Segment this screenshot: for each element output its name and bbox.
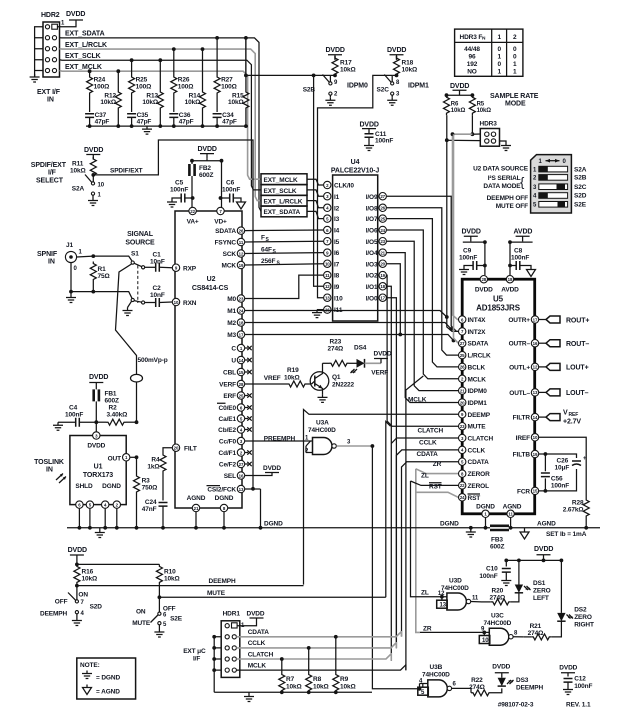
resistor R11 xyxy=(70,157,96,177)
svg-text:DS4: DS4 xyxy=(354,345,367,352)
svg-text:12: 12 xyxy=(239,251,244,256)
svg-text:M1: M1 xyxy=(227,308,236,315)
svg-text:VERF: VERF xyxy=(371,370,388,377)
resistor R16 xyxy=(74,564,97,584)
resistor R2 xyxy=(96,405,138,426)
svg-text:14: 14 xyxy=(239,358,244,363)
resistor R4 + capacitor C24 (FILT) xyxy=(142,448,172,530)
power DVDD (R17) xyxy=(326,47,345,60)
svg-text:I/F: I/F xyxy=(193,656,200,663)
EXT_MCLK label box xyxy=(261,174,323,185)
output tag LOUT- xyxy=(539,389,589,397)
svg-text:CSI2/FCK: CSI2/FCK xyxy=(207,487,236,494)
svg-text:CLATCH: CLATCH xyxy=(248,651,274,658)
EXT_L/RCLK label box xyxy=(261,195,323,208)
svg-text:26: 26 xyxy=(239,228,244,233)
output tag VREF +2.7V xyxy=(539,410,581,426)
svg-text:10kΩ: 10kΩ xyxy=(340,67,356,74)
svg-text:24: 24 xyxy=(460,495,465,500)
IC U1 TORX173 body xyxy=(70,422,139,537)
svg-text:S2D: S2D xyxy=(574,193,587,200)
switch S2D xyxy=(40,586,102,626)
RC column 3: R26/R14/C36 xyxy=(169,47,205,126)
svg-text:DEEMPH: DEEMPH xyxy=(516,685,544,692)
svg-text:ON: ON xyxy=(136,609,146,616)
svg-text:DGND: DGND xyxy=(102,483,121,490)
svg-text:AGND: AGND xyxy=(503,504,522,511)
no-connect marks U2 xyxy=(245,346,252,466)
svg-text:U3A: U3A xyxy=(316,420,329,427)
svg-text:FILTB: FILTB xyxy=(513,452,531,459)
resistor R9 xyxy=(333,635,356,693)
svg-text:I/O4: I/O4 xyxy=(366,250,378,257)
svg-text:I/O9: I/O9 xyxy=(366,194,378,201)
wire M2 xyxy=(245,323,453,331)
svg-text:DVDD: DVDD xyxy=(198,146,217,153)
svg-text:+2.7V: +2.7V xyxy=(563,419,581,426)
svg-text:REF: REF xyxy=(569,412,579,418)
power DVDD (R11) xyxy=(84,147,103,160)
svg-text:I6: I6 xyxy=(334,250,340,257)
svg-text:I/F: I/F xyxy=(48,170,57,177)
wire CCLK to pin xyxy=(396,440,458,649)
svg-text:274Ω: 274Ω xyxy=(469,684,485,691)
svg-text:10kΩ: 10kΩ xyxy=(477,108,492,114)
svg-text:CDATA: CDATA xyxy=(417,451,439,458)
svg-text:MCLK: MCLK xyxy=(248,662,267,669)
U5 left pin labels xyxy=(468,317,494,502)
svg-text:R7: R7 xyxy=(286,676,295,683)
svg-text:DVDD: DVDD xyxy=(89,374,108,381)
net CCLK xyxy=(236,640,396,648)
U5 right pin circles xyxy=(531,316,538,495)
svg-text:C10: C10 xyxy=(486,566,498,573)
svg-text:47pF: 47pF xyxy=(179,118,194,125)
wire AGND rail xyxy=(509,521,600,540)
svg-text:F: F xyxy=(261,235,265,242)
ground I11 xyxy=(312,310,323,318)
ground (HDR2 left bus) xyxy=(30,27,43,82)
U2 right-side pins xyxy=(207,228,236,493)
svg-text:FB1: FB1 xyxy=(105,391,117,398)
wire DGND rail xyxy=(67,521,490,538)
wire MUTE up to U5 xyxy=(386,422,391,598)
svg-text:I8: I8 xyxy=(334,273,340,280)
svg-text:EXT_SDATA: EXT_SDATA xyxy=(65,31,105,38)
svg-text:U5: U5 xyxy=(493,295,504,304)
svg-text:C5: C5 xyxy=(175,180,184,187)
svg-text:19: 19 xyxy=(239,263,244,268)
ferrite bead FB3 xyxy=(490,526,509,551)
switch S2A xyxy=(72,175,105,206)
svg-text:I10: I10 xyxy=(334,295,343,302)
svg-text:EXT I/F: EXT I/F xyxy=(37,89,61,96)
wire RST stub xyxy=(415,483,480,498)
svg-text:28: 28 xyxy=(481,277,486,282)
wire I/O9 to INT2X xyxy=(387,196,459,331)
wire HDR1 ground rail xyxy=(214,690,372,701)
label VERF xyxy=(371,370,388,377)
power DVDD (R18) xyxy=(387,47,406,60)
svg-text:IN: IN xyxy=(47,97,54,104)
svg-text:LOUT+: LOUT+ xyxy=(566,365,589,372)
svg-text:EXT μC: EXT μC xyxy=(183,648,206,655)
svg-text:ROUT–: ROUT– xyxy=(566,341,589,348)
svg-text:10: 10 xyxy=(174,300,179,305)
svg-text:EXT_SCLK: EXT_SCLK xyxy=(65,53,101,60)
capacitor C1 xyxy=(145,252,172,272)
capacitor C6 xyxy=(219,161,246,209)
svg-text:10nF: 10nF xyxy=(150,259,165,266)
power DVDD (R6/R5) xyxy=(445,83,475,97)
svg-text:DVDD: DVDD xyxy=(247,611,265,618)
svg-text:74HC00D: 74HC00D xyxy=(308,427,336,434)
svg-text:S2E: S2E xyxy=(170,616,183,623)
svg-text:DVDD: DVDD xyxy=(263,465,281,472)
power DVDD (C11) xyxy=(360,122,379,134)
wire FSYNC/Fs to I5 xyxy=(245,235,323,244)
svg-text:15: 15 xyxy=(533,489,538,494)
svg-text:27: 27 xyxy=(460,341,465,346)
svg-text:DS3: DS3 xyxy=(516,677,529,684)
svg-text:10kΩ: 10kΩ xyxy=(340,684,356,691)
wire CDATA to pin xyxy=(402,451,459,637)
net EXT_MCLK wire xyxy=(60,64,262,179)
svg-text:DVDD: DVDD xyxy=(492,664,510,671)
svg-text:100nF: 100nF xyxy=(459,255,477,262)
wire I/O6 to MCLK xyxy=(387,230,459,379)
svg-text:23: 23 xyxy=(380,239,385,244)
svg-text:OUTR–: OUTR– xyxy=(509,341,531,348)
svg-text:600Z: 600Z xyxy=(490,544,504,551)
label SIGNAL SOURCE xyxy=(125,231,155,247)
svg-text:ON: ON xyxy=(78,592,88,599)
svg-text:18: 18 xyxy=(508,277,513,282)
svg-text:18: 18 xyxy=(239,320,244,325)
svg-text:HDR2: HDR2 xyxy=(41,12,60,19)
U4 left pins xyxy=(324,181,355,314)
svg-text:SAMPLE RATE: SAMPLE RATE xyxy=(490,93,539,100)
svg-text:ERF: ERF xyxy=(223,393,236,400)
overlines CSI2 and C0 xyxy=(207,403,226,485)
svg-text:15: 15 xyxy=(239,370,244,375)
svg-text:DVDD: DVDD xyxy=(66,11,85,18)
svg-text:10kΩ: 10kΩ xyxy=(70,168,86,175)
svg-text:1: 1 xyxy=(513,69,517,76)
svg-text:17: 17 xyxy=(380,296,385,301)
svg-text:I9: I9 xyxy=(334,284,340,291)
nand gate U3D xyxy=(415,578,481,611)
svg-text:47nF: 47nF xyxy=(142,506,157,513)
svg-text:11: 11 xyxy=(239,240,244,245)
svg-text:CDATA: CDATA xyxy=(248,629,270,636)
svg-text:14: 14 xyxy=(533,415,538,420)
svg-text:100nF: 100nF xyxy=(574,683,592,690)
svg-text:21: 21 xyxy=(194,506,199,511)
capacitor C12 xyxy=(559,665,592,695)
svg-text:3.40kΩ: 3.40kΩ xyxy=(107,412,128,419)
svg-text:RXP: RXP xyxy=(183,266,197,273)
svg-text:2.67kΩ: 2.67kΩ xyxy=(563,507,584,514)
RC column 4: R27/R15/C34 xyxy=(213,36,249,126)
svg-text:CDATA: CDATA xyxy=(468,459,490,466)
label SAMPLE RATE MODE xyxy=(490,93,539,108)
svg-text:S2A: S2A xyxy=(72,186,85,193)
svg-text:SOURCE: SOURCE xyxy=(125,240,155,247)
svg-text:EXT_L/RCLK: EXT_L/RCLK xyxy=(264,199,303,206)
pin DGND 1 / AGND 11 xyxy=(476,504,522,530)
wire I/O2 to MUTE pin xyxy=(387,275,459,426)
svg-text:SPDIF/EXT: SPDIF/EXT xyxy=(31,162,67,169)
svg-text:47pF: 47pF xyxy=(95,118,110,125)
RC column 2: R25/R13/C35 xyxy=(127,58,163,126)
wire PREEMPH xyxy=(245,436,311,443)
svg-text:IN: IN xyxy=(48,259,55,266)
resistor R10 xyxy=(156,564,179,584)
svg-text:TORX173: TORX173 xyxy=(83,472,113,479)
svg-text:17: 17 xyxy=(239,332,244,337)
svg-text:100nF: 100nF xyxy=(375,138,393,145)
resistor R18 xyxy=(394,56,418,76)
svg-text:DVDD: DVDD xyxy=(87,443,105,450)
svg-text:10μF: 10μF xyxy=(555,465,570,472)
svg-text:HDR3: HDR3 xyxy=(480,121,498,128)
svg-text:FB3: FB3 xyxy=(491,537,503,544)
capacitor C56 loop FILTB/FCR xyxy=(539,452,577,493)
switch S2E xyxy=(132,597,183,637)
svg-text:R28: R28 xyxy=(572,500,584,507)
svg-text:SCK: SCK xyxy=(223,251,237,258)
wire I/O5 to IDPM0 pin xyxy=(387,241,459,390)
svg-text:FSYNC: FSYNC xyxy=(215,240,237,247)
wire I/O1 to CLATCH vertical xyxy=(387,286,392,660)
net DEEMPH vertical to DEEMP pin xyxy=(304,410,459,585)
wire CLATCH to pin xyxy=(391,428,458,444)
svg-text:SPNIF: SPNIF xyxy=(37,251,58,258)
resistor R6 xyxy=(444,95,466,115)
wire M3 xyxy=(245,335,455,343)
svg-text:#98107-02-3: #98107-02-3 xyxy=(498,702,534,709)
svg-text:96: 96 xyxy=(469,54,476,61)
capacitor C8 xyxy=(508,242,535,276)
svg-text:IREF: IREF xyxy=(516,435,530,442)
svg-text:CCLK: CCLK xyxy=(468,447,486,454)
svg-text:DEEMPH: DEEMPH xyxy=(209,578,237,585)
net EXT_L/RCLK wire xyxy=(60,42,262,201)
power DVDD (HDR1) xyxy=(237,611,265,626)
svg-text:C12: C12 xyxy=(574,676,586,683)
svg-text:NO: NO xyxy=(467,69,477,76)
svg-text:10kΩ: 10kΩ xyxy=(82,576,98,583)
wire J1 bottom rail xyxy=(66,263,132,303)
capacitor C10 xyxy=(479,559,511,586)
svg-text:IDPM1: IDPM1 xyxy=(468,400,488,407)
svg-text:750Ω: 750Ω xyxy=(142,485,158,492)
svg-text:AVDD: AVDD xyxy=(501,287,519,294)
svg-text:I/O0: I/O0 xyxy=(366,295,378,302)
svg-text:AGND: AGND xyxy=(537,521,556,528)
resistor R3 xyxy=(134,457,158,528)
svg-text:0: 0 xyxy=(497,61,501,68)
net SPDIF/EXT xyxy=(91,140,255,491)
svg-text:FILTR: FILTR xyxy=(513,415,531,422)
svg-text:AD1853JRS: AD1853JRS xyxy=(476,304,521,313)
svg-text:SDATA: SDATA xyxy=(215,228,236,235)
svg-text:1: 1 xyxy=(497,34,501,41)
svg-text:U3C: U3C xyxy=(491,613,504,620)
svg-text:= AGND: = AGND xyxy=(96,689,120,696)
power DVDD (FB2) xyxy=(190,146,223,163)
svg-text:AVDD: AVDD xyxy=(514,229,533,236)
wire IDPM0 to U4 I9 xyxy=(312,74,324,287)
svg-text:OUTL+: OUTL+ xyxy=(509,364,530,371)
wire VERF to R19 xyxy=(245,375,287,384)
ferrite bead FB1 xyxy=(94,388,119,423)
svg-text:19: 19 xyxy=(380,273,385,278)
svg-text:CBL: CBL xyxy=(223,370,236,377)
svg-text:R19: R19 xyxy=(287,367,299,374)
power DVDD (DS1/DS2 rail) xyxy=(506,546,563,562)
svg-text:C8: C8 xyxy=(514,248,523,255)
RC column 1: R24/R12/C37 xyxy=(85,69,121,126)
resistor R7 xyxy=(279,657,302,692)
pin RXN 10 xyxy=(172,298,196,307)
svg-text:ZL: ZL xyxy=(421,590,429,597)
svg-text:MUTE: MUTE xyxy=(468,424,487,431)
svg-text:74HC00D: 74HC00D xyxy=(484,620,512,627)
svg-text:R16: R16 xyxy=(82,569,94,576)
svg-text:1: 1 xyxy=(497,69,501,76)
connector HDR1 xyxy=(221,611,245,678)
power DVDD (FB1) xyxy=(89,374,108,388)
label EXT I/F IN xyxy=(37,89,61,104)
ferrite bead FB2 xyxy=(189,161,213,207)
resistor R8 xyxy=(306,646,329,693)
svg-text:R8: R8 xyxy=(313,676,322,683)
nand gate U3A xyxy=(305,420,374,455)
svg-text:I/O2: I/O2 xyxy=(366,273,378,280)
svg-text:C: C xyxy=(231,346,236,353)
svg-text:R11: R11 xyxy=(72,161,84,168)
capacitor C11 xyxy=(364,131,393,151)
svg-text:EXT_SCLK: EXT_SCLK xyxy=(264,188,297,195)
svg-text:DS2: DS2 xyxy=(574,607,587,614)
svg-text:I1: I1 xyxy=(334,194,340,201)
svg-text:Q1: Q1 xyxy=(332,374,341,381)
svg-text:IDPM0: IDPM0 xyxy=(347,83,368,90)
svg-text:I/O6: I/O6 xyxy=(366,228,378,235)
svg-text:I3: I3 xyxy=(334,216,340,223)
svg-text:I5: I5 xyxy=(334,239,340,246)
svg-text:U3B: U3B xyxy=(430,664,443,671)
svg-text:100Ω: 100Ω xyxy=(136,83,152,90)
svg-text:CCLK: CCLK xyxy=(248,640,266,647)
wire R6 to HDR3 and INT2X xyxy=(445,115,480,331)
svg-text:21: 21 xyxy=(380,250,385,255)
svg-text:13: 13 xyxy=(325,296,330,301)
svg-text:100Ω: 100Ω xyxy=(221,83,237,90)
switch S2C xyxy=(377,74,430,106)
svg-text:11: 11 xyxy=(508,512,513,517)
U5 right pin labels xyxy=(508,317,530,495)
svg-text:EXT_SDATA: EXT_SDATA xyxy=(264,209,301,216)
svg-text:SDATA: SDATA xyxy=(468,341,489,348)
resistor R21 xyxy=(523,623,551,640)
wire M1 xyxy=(245,311,449,319)
pin VA+ 22 xyxy=(187,207,199,225)
svg-text:13: 13 xyxy=(533,390,538,395)
EXT_SCLK label box xyxy=(261,185,323,197)
svg-text:MUTE: MUTE xyxy=(207,590,226,597)
svg-text:M3: M3 xyxy=(227,332,236,339)
wire EXT_SDATA to R17 junction xyxy=(244,38,330,77)
svg-text:0: 0 xyxy=(513,46,517,53)
svg-text:R18: R18 xyxy=(402,60,414,67)
svg-text:REV. 1.1: REV. 1.1 xyxy=(566,702,591,709)
wire I/O3 down to M3 bus xyxy=(387,264,402,337)
svg-text:23: 23 xyxy=(460,424,465,429)
svg-text:100Ω: 100Ω xyxy=(178,83,194,90)
pin RXP 9 xyxy=(172,264,196,273)
svg-text:10kΩ: 10kΩ xyxy=(164,576,180,583)
svg-text:500mVp-p: 500mVp-p xyxy=(138,357,168,364)
svg-text:DVDD: DVDD xyxy=(387,47,406,54)
svg-text:10nF: 10nF xyxy=(150,292,165,299)
svg-text:HDR3 F: HDR3 F xyxy=(460,34,483,41)
IC U4 PALCE22V10-J body xyxy=(331,159,379,321)
svg-text:I/O8: I/O8 xyxy=(366,205,378,212)
svg-text:10: 10 xyxy=(325,262,330,267)
svg-text:10kΩ: 10kΩ xyxy=(142,99,158,106)
svg-text:R20: R20 xyxy=(492,588,504,595)
svg-text:1: 1 xyxy=(513,61,517,68)
svg-text:INT4X: INT4X xyxy=(468,317,487,324)
pin FILT 20 xyxy=(172,444,197,453)
svg-text:ZERO: ZERO xyxy=(533,588,551,595)
svg-text:10kΩ: 10kΩ xyxy=(100,99,116,106)
svg-text:17: 17 xyxy=(533,317,538,322)
svg-text:VERF: VERF xyxy=(219,382,236,389)
power DVDD (DS4) xyxy=(365,351,392,364)
wire I/O0 down to CCLK vertical xyxy=(387,298,397,642)
svg-text:DVDD: DVDD xyxy=(374,351,392,358)
svg-text:= DGND: = DGND xyxy=(96,675,120,682)
svg-text:AGND: AGND xyxy=(187,495,206,502)
nand gate U3C xyxy=(420,613,523,646)
svg-text:I²S SERIAL: I²S SERIAL xyxy=(488,175,521,182)
svg-text:16: 16 xyxy=(533,341,538,346)
svg-text:22: 22 xyxy=(190,209,195,214)
svg-text:S2A: S2A xyxy=(574,166,587,173)
net EXT_SDATA wire xyxy=(60,31,262,212)
svg-text:U3D: U3D xyxy=(449,578,462,585)
wire EXT_SDATA drop to U5 SDATA (grey) xyxy=(454,134,459,343)
svg-text:VA+: VA+ xyxy=(187,219,199,226)
svg-text:SIGNAL: SIGNAL xyxy=(127,231,154,238)
svg-text:25: 25 xyxy=(460,353,465,358)
net DEEMPH xyxy=(75,578,304,587)
svg-text:M2: M2 xyxy=(227,320,236,327)
svg-text:R1: R1 xyxy=(98,266,107,273)
wire U3A out down to U3B xyxy=(372,446,421,691)
svg-text:DATA MODE: DATA MODE xyxy=(483,183,521,190)
svg-text:CCLK: CCLK xyxy=(419,440,437,447)
wire R5 to HDR3 and INT4X xyxy=(451,115,481,319)
label TOSLINK IN xyxy=(34,459,66,483)
svg-text:IDPM0: IDPM0 xyxy=(468,388,488,395)
net EXT_SCLK wire xyxy=(60,53,262,190)
svg-text:10kΩ: 10kΩ xyxy=(313,684,329,691)
